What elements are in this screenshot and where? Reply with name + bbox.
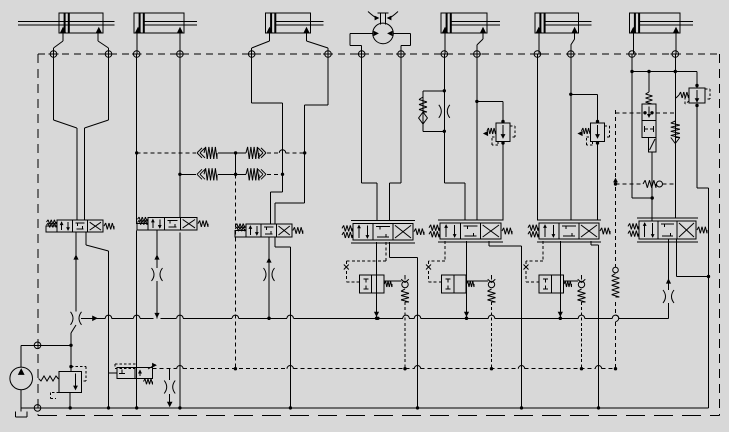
dashed pilot drain bus <box>153 366 616 371</box>
cylinder CYL1 (double rod) <box>18 13 114 33</box>
wire DV7 drain to border <box>677 239 709 277</box>
wire row1 mid <box>218 152 246 154</box>
directional valve DV5 <box>429 220 512 242</box>
junction RV5 feed <box>475 100 478 103</box>
wire cyl1 right port <box>98 33 109 54</box>
wire feed DV7 left <box>632 54 652 198</box>
wire motor left port <box>350 33 373 54</box>
compensator CP5 <box>426 241 496 370</box>
tank symbol T1 <box>15 412 27 418</box>
wire cyl7 right port <box>675 33 677 54</box>
wire cyl6 left port <box>538 33 540 54</box>
cylinder CYL7 <box>629 13 693 33</box>
wire feed DV4 right <box>389 54 401 220</box>
rotary joint connector P11 <box>533 51 543 58</box>
cylinder CYL3 <box>266 13 324 33</box>
junction DV6 jog tank <box>597 406 600 409</box>
bottom tank return line <box>21 407 708 409</box>
rotary joint connector P1 <box>49 51 59 58</box>
wire DV2 tank return <box>136 231 138 408</box>
junction row2 start <box>178 173 181 176</box>
wire feed DV2 left <box>136 54 138 224</box>
rotary joint connector P5 <box>247 51 257 58</box>
directional valve DV1 <box>46 220 114 232</box>
rotary joint connector P9 <box>440 51 450 58</box>
wire rows center link <box>235 153 237 174</box>
pump P1 <box>10 344 73 412</box>
wire feed DV3 left <box>252 54 283 224</box>
port relief valve RV6 <box>571 94 610 220</box>
wire feed DV5 left <box>444 54 465 220</box>
wire DV4 jog return <box>389 242 417 408</box>
rotary joint connector P14 <box>671 51 681 58</box>
wire pilot dash to PRV <box>616 112 643 114</box>
junction rows center <box>234 151 237 154</box>
right inner solid border <box>697 104 709 408</box>
wire cyl3 left port <box>252 33 270 54</box>
mid pressure carry-over bus <box>81 315 669 321</box>
rotary joint connector P2 <box>104 51 114 58</box>
anti-drift valve row1 right symbol <box>246 147 266 159</box>
wire DV1 to pump junction + throttle <box>71 232 82 345</box>
junction DV4 jog tank <box>416 406 419 409</box>
main relief valve RV7 top right <box>630 70 710 107</box>
wire feed DV3 right <box>275 54 328 224</box>
junction DV7 drain border <box>707 275 710 278</box>
spring check valve DV7 line <box>671 121 680 144</box>
wire DV2 bottom throttle to bus <box>152 230 163 318</box>
directional valve DV6 <box>528 220 610 242</box>
wire feed DV4 left <box>362 54 377 220</box>
wire row2 left <box>180 173 196 175</box>
port relief valve RV5 <box>477 101 515 220</box>
wire motor right port <box>393 33 410 54</box>
wire cyl2 left port <box>136 33 138 54</box>
wire cyl3 right port <box>307 33 329 54</box>
unloading valve UV1 <box>109 363 157 385</box>
directional valve DV2 <box>137 217 208 230</box>
bottom long-dash border <box>38 415 720 417</box>
bypass check-throttle loop <box>419 89 450 133</box>
junction DV2 tank <box>135 406 138 409</box>
rotary joint connector P3 <box>132 51 142 58</box>
cylinder CYL5 <box>441 13 500 33</box>
rotary joint connector P13 <box>627 51 637 58</box>
junction RV6 feed <box>569 93 572 96</box>
dashed gland bus line <box>38 53 720 55</box>
pressure reducing valve PRV <box>642 72 656 199</box>
wire cyl6 right port <box>571 33 575 54</box>
wire feed DV6 right <box>570 54 572 220</box>
wire row1 pilot <box>137 152 196 154</box>
compensator CP4 <box>344 242 409 370</box>
left dashed border <box>37 54 39 416</box>
rotary joint connector P7 <box>357 51 367 58</box>
junction DV3 tank <box>289 406 292 409</box>
wire cyl2 right port <box>179 33 181 54</box>
wire feed DV2 right <box>179 54 181 218</box>
wire cyl5 right port <box>477 33 483 54</box>
directional valve DV3 <box>235 224 303 237</box>
rotary joint connector P4 <box>175 51 185 58</box>
junction DV2 right tank <box>178 406 181 409</box>
rotary joint connector P12 <box>566 51 576 58</box>
wire cyl1 left port <box>54 33 64 54</box>
junction PRV out <box>651 196 654 199</box>
wire DV3 bottom to mid bus <box>264 237 275 320</box>
wire feed DV7 center <box>674 54 676 218</box>
rotary joint connector P8 <box>396 51 406 58</box>
wire DV3 right return <box>275 237 290 408</box>
cylinder CYL6 <box>535 13 592 33</box>
rotary joint connector P6 <box>323 51 333 58</box>
bleed throttle to tank <box>164 369 175 408</box>
anti-drift valve row1 left symbol <box>197 147 217 159</box>
wire DV5 jog return <box>489 241 522 408</box>
wire PRV to DV7 <box>651 198 653 221</box>
wire row2 right dashed <box>267 173 283 175</box>
gland connector pump line <box>34 342 41 349</box>
rotary joint connector P10 <box>472 51 482 58</box>
compensator CP6 <box>524 241 586 370</box>
junction row2 end <box>281 173 284 176</box>
wire DV2 right return <box>179 233 181 408</box>
junction row1 end <box>303 151 306 154</box>
anti-drift valve row2 left symbol <box>197 168 217 180</box>
directional valve DV7 <box>628 218 707 242</box>
wire DV1 right return <box>86 232 109 408</box>
wire feed DV5 right <box>476 54 478 220</box>
pilot shuttle valve column <box>612 110 620 370</box>
junction rows center2 <box>234 173 237 176</box>
motor M1 rotary drive <box>368 12 398 44</box>
wire row1 end dashed <box>286 152 305 154</box>
wire center pilot dashed down <box>235 174 237 368</box>
cylinder CYL2 <box>134 13 197 33</box>
wire DV6 jog return <box>591 241 599 408</box>
wire feed DV1 left <box>54 54 77 220</box>
directional valve DV4 <box>342 220 424 243</box>
junction row1 start <box>135 151 138 154</box>
wire pilot dash PRV to DV7 line <box>656 112 675 114</box>
right dashed border <box>719 54 721 416</box>
main relief valve RV1 <box>39 345 87 409</box>
wire cyl7 left port <box>632 33 634 54</box>
wire feed DV6 left <box>536 54 538 220</box>
wire DV7 bottom throttle from bus <box>663 239 674 318</box>
pilot spring orifice line <box>613 178 675 188</box>
gland connector tank line <box>34 405 41 412</box>
hop row1 over feed line <box>279 150 285 153</box>
wire cyl5 left port <box>444 33 446 54</box>
junction DV1 return tank <box>107 406 110 409</box>
wire row1 right dashed <box>267 152 280 154</box>
anti-drift valve row2 right symbol <box>246 168 266 180</box>
wire row2 mid <box>218 173 246 175</box>
wire feed DV1 right <box>85 54 109 220</box>
junction DV5 jog tank <box>520 406 523 409</box>
